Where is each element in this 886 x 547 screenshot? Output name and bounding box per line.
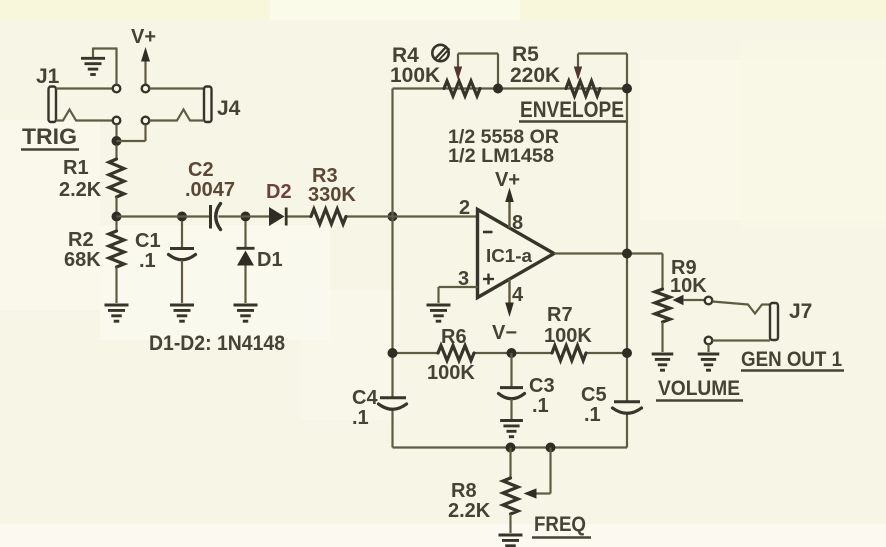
svg-text:J1: J1: [36, 65, 60, 88]
svg-text:1/2 LM1458: 1/2 LM1458: [448, 145, 554, 167]
svg-text:2.2K: 2.2K: [448, 500, 491, 522]
svg-text:GEN OUT 1: GEN OUT 1: [741, 348, 842, 371]
svg-text:.1: .1: [352, 407, 369, 429]
svg-text:C1: C1: [135, 230, 161, 252]
svg-text:D2: D2: [266, 181, 292, 203]
svg-text:2.2K: 2.2K: [59, 179, 102, 201]
svg-text:100K: 100K: [544, 325, 592, 347]
svg-text:D1: D1: [257, 249, 283, 271]
svg-text:330K: 330K: [308, 184, 356, 206]
svg-text:8: 8: [512, 212, 523, 234]
svg-text:100K: 100K: [427, 362, 475, 384]
svg-text:68K: 68K: [64, 249, 101, 271]
svg-text:VOLUME: VOLUME: [658, 376, 740, 400]
svg-text:R7: R7: [547, 304, 573, 326]
svg-text:.0047: .0047: [185, 179, 235, 201]
svg-text:J7: J7: [789, 300, 812, 323]
svg-text:D1-D2: 1N4148: D1-D2: 1N4148: [149, 332, 285, 355]
svg-text:C4: C4: [352, 387, 378, 409]
svg-text:FREQ: FREQ: [534, 513, 586, 536]
svg-text:4: 4: [512, 284, 524, 306]
svg-text:.1: .1: [532, 395, 549, 417]
svg-text:ENVELOPE: ENVELOPE: [520, 97, 624, 122]
svg-text:10K: 10K: [670, 275, 707, 297]
svg-text:C5: C5: [581, 384, 607, 406]
svg-text:R1: R1: [63, 157, 89, 179]
svg-text:V−: V−: [492, 322, 517, 344]
svg-text:R5: R5: [512, 43, 539, 66]
svg-text:J4: J4: [217, 97, 241, 120]
svg-text:C3: C3: [529, 375, 555, 397]
svg-text:R6: R6: [441, 326, 467, 348]
svg-text:R8: R8: [451, 480, 477, 502]
svg-text:R2: R2: [68, 229, 94, 251]
svg-text:IC1-a: IC1-a: [486, 245, 533, 266]
svg-text:100K: 100K: [390, 64, 440, 87]
svg-text:2: 2: [459, 197, 470, 219]
svg-text:C2: C2: [188, 159, 214, 181]
svg-text:TRIG: TRIG: [22, 124, 77, 149]
svg-text:.1: .1: [584, 404, 601, 426]
svg-text:V+: V+: [131, 26, 156, 48]
svg-text:.1: .1: [139, 250, 156, 272]
svg-text:3: 3: [458, 268, 469, 290]
svg-text:220K: 220K: [510, 64, 560, 87]
svg-text:V+: V+: [495, 169, 520, 191]
